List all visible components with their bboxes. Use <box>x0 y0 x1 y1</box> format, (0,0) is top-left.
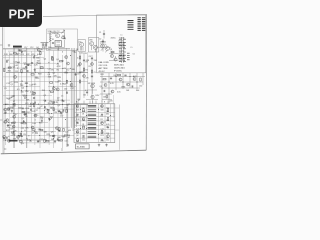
svg-text:L5: L5 <box>131 47 133 49</box>
svg-text:0.1: 0.1 <box>23 63 26 65</box>
svg-text:R18: R18 <box>5 104 8 106</box>
svg-text:R2: R2 <box>63 35 65 37</box>
svg-text:R18: R18 <box>39 123 42 125</box>
svg-text:Q2: Q2 <box>44 95 47 97</box>
transistor Q41 <box>4 120 7 123</box>
main supply rails <box>3 48 88 148</box>
svg-text:C5: C5 <box>61 96 63 98</box>
svg-text:R15: R15 <box>65 108 68 110</box>
transistor Q46 <box>66 62 69 65</box>
svg-text:470: 470 <box>35 77 38 79</box>
capacitor C6 <box>25 113 28 115</box>
svg-text:1K: 1K <box>76 49 79 51</box>
svg-text:R7: R7 <box>15 114 18 116</box>
output box top pins <box>76 101 108 104</box>
ground <box>34 69 36 72</box>
resistor R34 <box>40 67 43 68</box>
svg-text:470: 470 <box>25 103 28 105</box>
resistor R28 <box>4 69 5 72</box>
transistor Q2 <box>32 92 35 95</box>
svg-text:220: 220 <box>110 100 113 102</box>
svg-text:ANT TRIM: ANT TRIM <box>99 67 108 70</box>
svg-text:C1: C1 <box>99 32 101 34</box>
resistor R101 <box>49 34 51 42</box>
output box grid wires <box>74 104 115 143</box>
svg-text:100: 100 <box>64 88 67 90</box>
svg-text:47: 47 <box>68 137 71 139</box>
IF amplifier cluster <box>109 49 130 61</box>
svg-text:455 KC: 455 KC <box>99 71 106 73</box>
svg-text:R9: R9 <box>89 66 91 68</box>
svg-text:C8: C8 <box>89 56 91 58</box>
svg-text:DRV: DRV <box>96 95 101 97</box>
svg-text:C8: C8 <box>76 116 78 118</box>
svg-text:C12: C12 <box>30 47 33 49</box>
junction tick <box>61 148 63 151</box>
ground <box>57 138 59 141</box>
svg-text:0.05: 0.05 <box>32 84 37 86</box>
transistor Q84 <box>58 128 61 131</box>
svg-text:Q1: Q1 <box>62 61 65 63</box>
wire <box>115 108 120 130</box>
svg-text:C8: C8 <box>22 112 24 114</box>
capacitor C11 <box>27 64 30 66</box>
wire <box>97 30 111 52</box>
svg-text:Q4: Q4 <box>48 74 51 76</box>
stage title band <box>8 43 52 49</box>
svg-text:0.05: 0.05 <box>101 141 104 143</box>
svg-text:R1: R1 <box>15 71 17 73</box>
capacitor C19 <box>22 107 24 110</box>
ground <box>57 48 59 51</box>
svg-text:X1: X1 <box>52 39 54 41</box>
svg-text:0.1: 0.1 <box>77 58 80 60</box>
svg-text:C22: C22 <box>26 54 29 56</box>
svg-text:Q1: Q1 <box>13 66 16 68</box>
svg-text:220: 220 <box>82 127 85 129</box>
svg-text:R1: R1 <box>7 60 9 62</box>
svg-text:C3: C3 <box>72 51 74 53</box>
signal bus <box>71 48 76 131</box>
transistor Q25 <box>56 88 59 91</box>
svg-text:Q2: Q2 <box>52 72 55 74</box>
svg-text:R9: R9 <box>101 106 103 108</box>
svg-text:0.05: 0.05 <box>32 123 36 125</box>
svg-text:C12: C12 <box>101 132 104 134</box>
svg-text:C17: C17 <box>24 47 27 49</box>
svg-text:B: B <box>76 102 78 104</box>
svg-text:(s): (s) <box>4 148 7 150</box>
transistor Q24 <box>7 139 10 142</box>
svg-text:R1: R1 <box>101 119 103 121</box>
ground <box>105 144 107 147</box>
svg-text:100: 100 <box>82 120 85 122</box>
svg-text:Q9: Q9 <box>100 86 102 88</box>
svg-text:56K: 56K <box>76 141 80 143</box>
svg-text:10K: 10K <box>28 106 32 108</box>
svg-text:Q1: Q1 <box>28 112 31 114</box>
transistor Q22 <box>52 87 55 90</box>
transistor symbol cluster <box>101 44 105 48</box>
mid field labels <box>9 58 70 99</box>
svg-text:47: 47 <box>41 106 43 108</box>
capacitor C16 <box>65 92 68 94</box>
PDF badge <box>0 0 42 27</box>
svg-text:33K: 33K <box>67 135 71 137</box>
svg-text:OSC 3.5MC: OSC 3.5MC <box>48 33 58 35</box>
transistor Q67 <box>4 108 7 111</box>
capacitor C51 <box>19 134 22 136</box>
capacitor C56 <box>18 49 21 51</box>
svg-text:C17: C17 <box>70 88 73 90</box>
alignment chart box <box>97 15 146 73</box>
svg-text:C5: C5 <box>76 106 78 108</box>
svg-text:680: 680 <box>82 138 85 140</box>
capacitor C32 <box>102 40 104 43</box>
capacitor C54 <box>5 61 8 63</box>
svg-text:47: 47 <box>21 136 23 138</box>
wire mesh vertical <box>5 44 88 148</box>
svg-text:Q6: Q6 <box>11 108 14 110</box>
speaker wire <box>67 104 69 144</box>
bus label band <box>4 54 41 56</box>
svg-text:220: 220 <box>54 112 57 114</box>
alignment note text <box>99 61 125 73</box>
capacitor C101 <box>64 37 66 40</box>
svg-text:Q6: Q6 <box>51 132 54 134</box>
svg-text:E: E <box>104 102 106 104</box>
svg-text:C5: C5 <box>35 132 37 134</box>
svg-text:C22: C22 <box>76 132 79 134</box>
svg-text:Q1: Q1 <box>10 84 13 86</box>
svg-text:VR 10KB: VR 10KB <box>88 83 96 85</box>
page right border <box>145 14 147 150</box>
svg-text:IF 455KC: IF 455KC <box>114 71 123 73</box>
svg-text:C3: C3 <box>106 111 108 113</box>
capacitor C9 <box>26 70 28 73</box>
svg-text:680: 680 <box>36 58 39 60</box>
svg-text:Q4: Q4 <box>56 59 59 61</box>
model label box <box>76 144 90 149</box>
pinout box Q1 <box>78 40 85 52</box>
pinout box Q2 Q3 <box>88 38 98 52</box>
svg-text:Q8: Q8 <box>110 49 112 51</box>
svg-text:C3: C3 <box>57 100 59 102</box>
svg-text:470: 470 <box>9 67 12 69</box>
oscillator inset box <box>47 29 78 51</box>
svg-text:Q6: Q6 <box>106 127 108 129</box>
svg-text:0.05: 0.05 <box>65 73 69 75</box>
svg-text:C3: C3 <box>41 118 43 120</box>
svg-text:470: 470 <box>86 78 89 80</box>
svg-text:680: 680 <box>38 63 41 65</box>
junction dots <box>5 51 71 141</box>
svg-text:C12: C12 <box>23 68 26 70</box>
svg-text:56K: 56K <box>101 110 105 112</box>
resistor R70 <box>63 128 64 131</box>
svg-text:Q1: Q1 <box>58 105 61 107</box>
crystal Y1 <box>55 41 61 47</box>
resistor R69 <box>13 53 16 54</box>
svg-text:C48: C48 <box>103 97 106 99</box>
svg-text:1K: 1K <box>82 114 85 116</box>
svg-text:470: 470 <box>51 70 54 72</box>
svg-text:2SB: 2SB <box>89 40 93 42</box>
power rail bar <box>9 140 18 142</box>
resistor R26 <box>8 67 11 68</box>
svg-text:R18: R18 <box>48 103 51 105</box>
resistor R75 <box>40 52 41 55</box>
svg-text:R18: R18 <box>26 108 29 110</box>
svg-text:R15: R15 <box>35 115 38 117</box>
capacitor C77 <box>29 109 32 111</box>
wire mesh horizontal <box>3 49 88 143</box>
svg-text:455KC: 455KC <box>111 38 117 40</box>
page left border <box>1 27 4 153</box>
svg-text:680: 680 <box>18 107 21 109</box>
svg-text:C12: C12 <box>106 140 109 142</box>
resistor R79 <box>31 74 34 75</box>
transistor Q47 <box>70 84 73 87</box>
svg-text:C22: C22 <box>21 128 24 130</box>
svg-text:680: 680 <box>106 114 109 116</box>
capacitor C21 <box>4 111 6 114</box>
svg-text:470: 470 <box>54 76 57 78</box>
svg-text:R44: R44 <box>136 90 139 92</box>
svg-text:OSC COIL: OSC COIL <box>99 65 108 67</box>
svg-text:100: 100 <box>21 91 24 93</box>
svg-text:PDF: PDF <box>9 6 35 21</box>
svg-text:R21: R21 <box>25 83 28 85</box>
svg-text:47: 47 <box>13 101 15 103</box>
svg-text:R7: R7 <box>41 49 43 51</box>
svg-text:680: 680 <box>10 54 13 56</box>
svg-text:47: 47 <box>28 64 30 66</box>
capacitor C45 <box>54 140 56 143</box>
capacitor C18 <box>34 102 37 104</box>
svg-text:R9: R9 <box>86 62 88 64</box>
svg-text:SL-6300: SL-6300 <box>77 147 86 149</box>
svg-text:R18: R18 <box>11 132 14 134</box>
svg-text:R21: R21 <box>101 135 104 137</box>
ground <box>21 50 23 53</box>
wire to border <box>118 105 120 150</box>
ground <box>37 140 39 143</box>
capacitor C65 <box>33 97 35 100</box>
svg-text:4.7K: 4.7K <box>57 66 62 68</box>
lower field components <box>5 100 69 143</box>
transistor Q48 <box>3 135 6 138</box>
output box junctions <box>80 109 111 135</box>
resistor R1 <box>53 108 54 111</box>
transistor Q64 <box>65 56 68 59</box>
svg-text:56K: 56K <box>26 100 30 102</box>
svg-text:0.05: 0.05 <box>106 124 109 126</box>
page bottom border <box>1 150 146 154</box>
svg-text:R18: R18 <box>76 110 79 112</box>
resistor R102 <box>62 37 65 38</box>
resistor R40 <box>52 56 53 59</box>
svg-text:R25: R25 <box>6 130 9 132</box>
svg-text:220: 220 <box>64 136 67 138</box>
svg-text:C6: C6 <box>133 54 135 56</box>
svg-text:470: 470 <box>12 104 15 106</box>
svg-text:0.01: 0.01 <box>23 51 27 53</box>
svg-text:C12: C12 <box>82 133 85 135</box>
svg-text:C12: C12 <box>29 85 32 87</box>
output stage labels <box>76 106 110 143</box>
transistor Q3 <box>34 114 37 117</box>
svg-text:R15: R15 <box>21 54 24 56</box>
svg-text:Q1: Q1 <box>22 118 25 120</box>
IF chain wire <box>122 37 124 63</box>
svg-text:0.1: 0.1 <box>51 102 54 104</box>
transistor Q78 <box>37 48 40 51</box>
svg-text:470: 470 <box>32 54 35 56</box>
resistor R50 <box>44 139 45 142</box>
svg-text:600KC ADJ: 600KC ADJ <box>114 64 124 67</box>
resistor R10 <box>50 82 53 83</box>
svg-text:Q4: Q4 <box>34 92 37 94</box>
coil table T2 <box>138 18 146 31</box>
output stage box <box>74 104 115 143</box>
svg-text:33K: 33K <box>12 96 16 98</box>
margin tick <box>0 119 2 121</box>
svg-text:C12: C12 <box>66 70 69 72</box>
svg-text:220: 220 <box>101 122 104 124</box>
resistor R17 <box>52 58 53 61</box>
svg-text:C41: C41 <box>83 95 86 97</box>
capacitor C66 <box>52 134 54 137</box>
svg-text:2SA355: 2SA355 <box>100 41 106 44</box>
capacitor C73 <box>40 120 43 122</box>
svg-text:0.1: 0.1 <box>17 89 20 91</box>
svg-text:R25: R25 <box>15 82 18 84</box>
svg-text:R18: R18 <box>38 73 41 75</box>
svg-text:R21: R21 <box>8 71 11 73</box>
svg-text:C12: C12 <box>106 108 109 110</box>
svg-text:Q4: Q4 <box>76 135 78 137</box>
antenna arrow <box>61 30 64 33</box>
svg-text:Q2: Q2 <box>61 100 64 102</box>
faint vertical wire <box>113 95 115 118</box>
svg-text:4.7K: 4.7K <box>110 83 114 85</box>
wire <box>50 33 64 48</box>
svg-text:Q2: Q2 <box>57 98 60 100</box>
svg-text:1N34: 1N34 <box>121 86 125 88</box>
svg-text:C5: C5 <box>49 135 51 137</box>
page left inner border <box>3 27 6 153</box>
resistor R49 <box>21 69 22 72</box>
svg-text:C22: C22 <box>14 61 17 63</box>
capacitor C8 <box>62 99 64 102</box>
svg-text:C3: C3 <box>4 88 6 90</box>
svg-text:Q2: Q2 <box>77 99 80 101</box>
svg-text:0.05: 0.05 <box>27 140 31 142</box>
svg-text:C17: C17 <box>60 116 63 118</box>
transistor Q55 <box>7 108 10 111</box>
component value labels <box>4 49 90 143</box>
svg-text:R1: R1 <box>66 104 68 106</box>
svg-text:R25: R25 <box>58 77 61 79</box>
svg-text:R9: R9 <box>25 116 27 118</box>
resistor R0 <box>50 91 53 92</box>
svg-text:C3: C3 <box>24 97 26 99</box>
IF transformer column <box>111 38 135 62</box>
svg-text:10K: 10K <box>126 90 130 92</box>
capacitor C83 <box>3 137 5 140</box>
svg-text:C52: C52 <box>139 86 142 88</box>
resistor R45 <box>46 141 49 142</box>
svg-text:15K: 15K <box>25 128 29 130</box>
resistor R58 <box>66 110 67 113</box>
ground <box>98 144 100 147</box>
svg-text:R41: R41 <box>101 74 104 76</box>
svg-text:C: C <box>92 102 94 104</box>
resistor R30 <box>66 80 67 83</box>
detector stage cluster <box>100 73 146 103</box>
svg-text:Q4: Q4 <box>44 59 47 61</box>
svg-text:C5: C5 <box>20 83 22 85</box>
svg-text:15K: 15K <box>94 60 98 62</box>
capacitor C74 <box>33 56 36 58</box>
resistor R31 <box>40 129 43 130</box>
capacitor C31 <box>103 33 105 36</box>
capacitor C61 <box>31 62 33 65</box>
svg-text:0.1: 0.1 <box>56 63 59 65</box>
svg-text:0.1: 0.1 <box>101 116 103 118</box>
svg-text:2.2K: 2.2K <box>76 119 80 121</box>
resistor R37 <box>33 104 34 107</box>
svg-text:2.2K: 2.2K <box>25 91 30 93</box>
svg-text:680: 680 <box>12 134 15 136</box>
coupling capacitor C41 <box>86 91 88 94</box>
transistor Q14 <box>14 75 17 78</box>
svg-text:Q2: Q2 <box>82 108 84 110</box>
svg-text:0.01: 0.01 <box>55 82 59 84</box>
svg-text:C8: C8 <box>76 122 78 124</box>
page top border <box>43 14 147 16</box>
svg-text:R21: R21 <box>50 108 53 110</box>
output stage components <box>76 105 109 142</box>
svg-text:C17: C17 <box>34 110 37 112</box>
svg-text:R1: R1 <box>57 70 60 72</box>
svg-text:+9V: +9V <box>21 143 25 145</box>
svg-text:R9: R9 <box>23 134 25 136</box>
svg-text:470: 470 <box>77 66 80 68</box>
capacitor C80 <box>62 109 65 111</box>
svg-text:C17: C17 <box>39 139 42 141</box>
coil table T1 <box>128 21 134 30</box>
svg-text:C5: C5 <box>94 72 96 74</box>
svg-text:Q2: Q2 <box>38 129 41 131</box>
svg-text:C12: C12 <box>82 140 85 142</box>
svg-text:L1: L1 <box>121 35 123 37</box>
svg-text:Q4: Q4 <box>21 88 25 90</box>
capacitor C102 <box>52 42 54 45</box>
volume control VR1 <box>91 84 95 88</box>
svg-text:0.05: 0.05 <box>117 92 121 94</box>
svg-text:1400KC ADJ: 1400KC ADJ <box>114 67 125 70</box>
svg-text:R1: R1 <box>86 70 88 72</box>
driver Q11 <box>91 95 94 98</box>
ground <box>48 118 50 121</box>
svg-text:C3: C3 <box>77 74 79 76</box>
ground <box>67 144 69 147</box>
svg-text:DIAL CORD: DIAL CORD <box>99 61 110 64</box>
svg-text:Q1: Q1 <box>82 124 84 126</box>
transistor Q101 <box>56 34 60 38</box>
